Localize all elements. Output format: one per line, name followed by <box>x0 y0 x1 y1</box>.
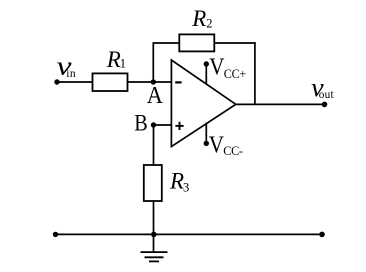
resistor R2 <box>179 34 214 51</box>
svg-text:R: R <box>106 47 121 72</box>
svg-text:2: 2 <box>206 17 212 31</box>
label vout <box>311 73 334 102</box>
wire bottom ground bus <box>56 233 323 235</box>
ground <box>141 234 168 261</box>
label vin <box>57 52 77 81</box>
resistor R3 <box>144 165 162 201</box>
op-amp inverting input minus sign <box>175 81 181 83</box>
node ground junction dot <box>151 232 157 238</box>
wire feedback vertical left (node A up to R2) <box>152 43 154 82</box>
op-amp non-inverting input plus sign <box>175 122 183 130</box>
node vout terminal dot <box>322 102 328 108</box>
node B junction dot <box>151 122 156 127</box>
svg-text:A: A <box>147 82 164 109</box>
label R3 <box>169 169 189 195</box>
svg-text:3: 3 <box>183 180 189 194</box>
node VCC+ dot <box>204 61 209 66</box>
node vin terminal dot <box>54 79 59 84</box>
resistor R1 <box>93 73 128 91</box>
wire node B down to R3 <box>153 125 155 166</box>
wire R2 right to feedback corner <box>214 42 255 44</box>
svg-text:CC-: CC- <box>223 144 243 158</box>
svg-text:V: V <box>209 132 225 159</box>
svg-text:R: R <box>191 6 206 31</box>
wire B input to op-amp <box>154 124 172 126</box>
label R2 <box>191 6 212 31</box>
op-amp U1 triangle <box>171 60 235 147</box>
wire input from vin terminal to R1 <box>57 81 93 83</box>
node A junction dot <box>151 79 156 84</box>
label VCC- <box>209 132 243 159</box>
wire top horizontal to R2 left <box>153 42 180 44</box>
svg-text:R: R <box>169 169 184 194</box>
svg-text:CC+: CC+ <box>224 67 247 81</box>
svg-text:1: 1 <box>120 55 127 70</box>
node VCC- dot <box>204 141 209 146</box>
label VCC+ <box>209 54 246 82</box>
svg-text:in: in <box>66 68 76 80</box>
wire R1 to op-amp inverting input <box>128 81 172 83</box>
wire feedback vertical right down to output <box>254 42 256 104</box>
node bottom-right terminal dot <box>319 232 325 238</box>
wire VCC- stem <box>205 123 207 144</box>
label R1 <box>106 47 126 72</box>
svg-text:B: B <box>134 111 148 137</box>
wire VCC+ stem <box>205 64 207 84</box>
wire R3 down to ground bus <box>153 201 155 234</box>
node bottom-left terminal dot <box>53 232 58 237</box>
svg-text:V: V <box>209 54 225 81</box>
wire output from op-amp to vout terminal <box>236 103 325 105</box>
svg-text:out: out <box>319 89 335 101</box>
